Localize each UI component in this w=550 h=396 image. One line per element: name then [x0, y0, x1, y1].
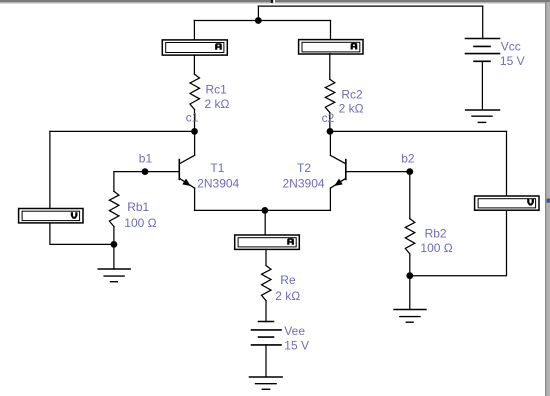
- wire into ammeter M2: [330, 21, 332, 40]
- wire Re to Vee: [265, 301, 267, 322]
- ammeter M2: [299, 40, 363, 54]
- ground under Rb2: [394, 276, 426, 323]
- svg-text:Rb2: Rb2: [425, 226, 447, 240]
- wire collector top rail: [194, 20, 330, 22]
- svg-text:Re: Re: [280, 273, 296, 287]
- wire emitter rail: [195, 209, 331, 211]
- voltmeter V1: [19, 209, 83, 223]
- ammeter M3: [235, 235, 300, 249]
- svg-text:2N3904: 2N3904: [283, 177, 325, 191]
- wire base b2: [346, 171, 410, 173]
- svg-text:Vee: Vee: [284, 324, 305, 338]
- wire b1 corner down to Rb1: [113, 172, 115, 192]
- resistor Re: [262, 266, 272, 301]
- node c2: [327, 128, 334, 135]
- voltmeter V2: [475, 196, 539, 210]
- wire M3 to Re: [265, 249, 267, 265]
- wire c1 to voltmeter V1 branch: [50, 130, 195, 132]
- node b2: [406, 168, 413, 175]
- svg-text:2 kΩ: 2 kΩ: [339, 102, 364, 116]
- svg-text:100 Ω: 100 Ω: [420, 241, 452, 255]
- node Rb2 ground junction: [406, 272, 413, 279]
- transistor T1: [179, 131, 194, 210]
- svg-text:100 Ω: 100 Ω: [124, 216, 156, 230]
- scrollbar edge right: [545, 2, 550, 396]
- svg-text:T1: T1: [210, 161, 224, 175]
- wire Rc1 to node c1: [194, 110, 196, 132]
- ground under Vcc: [466, 110, 500, 122]
- toolbar edge top: [0, 0, 550, 4]
- node Rb1 ground junction: [111, 241, 118, 248]
- battery Vee: [252, 322, 282, 378]
- wire Rb2 to junction: [409, 254, 411, 276]
- wire into ammeter M3: [264, 210, 266, 234]
- wire Rc2 to node c2: [329, 113, 331, 132]
- svg-text:2 kΩ: 2 kΩ: [205, 97, 230, 111]
- battery Vcc: [466, 6, 500, 110]
- svg-text:b1: b1: [139, 151, 153, 165]
- node top junction: [255, 17, 262, 24]
- svg-text:2 kΩ: 2 kΩ: [275, 289, 300, 303]
- svg-text:Rc2: Rc2: [341, 87, 363, 101]
- wire base b1: [114, 171, 179, 173]
- ground under Rb1: [98, 244, 130, 281]
- wire V2 to Rb2 ground rail: [410, 210, 507, 276]
- wire V1 to ground rail: [50, 224, 114, 245]
- wire into ammeter M1: [193, 21, 195, 40]
- node emitter junction: [262, 207, 269, 214]
- node c1: [191, 128, 198, 135]
- svg-text:c2: c2: [322, 111, 335, 125]
- ground under Vee: [249, 377, 282, 389]
- ammeter M1: [162, 40, 227, 55]
- svg-text:c1: c1: [186, 111, 199, 125]
- wire stub node to top rail: [257, 6, 259, 20]
- svg-text:T2: T2: [297, 161, 311, 175]
- resistor Rb2: [405, 219, 415, 254]
- wire M2 to Rc2: [329, 54, 331, 80]
- svg-text:15 V: 15 V: [500, 54, 525, 68]
- svg-text:b2: b2: [401, 152, 415, 166]
- wire top rail to Vcc: [258, 5, 482, 7]
- wire down to V2: [506, 131, 508, 195]
- resistor Rc1: [190, 74, 200, 109]
- node b1: [142, 168, 149, 175]
- svg-text:Rb1: Rb1: [127, 200, 149, 214]
- svg-text:Vcc: Vcc: [501, 39, 521, 53]
- resistor Rb1: [109, 191, 119, 226]
- svg-text:Rc1: Rc1: [206, 83, 228, 97]
- transistor T2: [330, 131, 345, 210]
- wire b2 down to Rb2: [409, 172, 411, 219]
- wire c2 to voltmeter V2 branch: [330, 130, 507, 132]
- resistor Rc2: [325, 79, 335, 112]
- svg-text:2N3904: 2N3904: [197, 177, 239, 191]
- svg-text:15 V: 15 V: [284, 339, 309, 353]
- wire M1 to Rc1: [193, 55, 195, 74]
- wire down to V1: [49, 131, 51, 208]
- wire Rb1 to junction: [113, 227, 115, 245]
